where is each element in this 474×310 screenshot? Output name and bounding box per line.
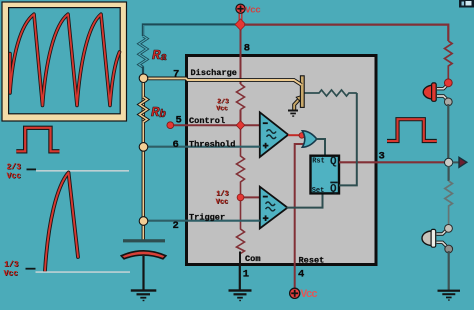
node trigger junction (ball)	[139, 217, 148, 226]
tick mark 2/3 level	[27, 169, 37, 171]
resistor Rb	[140, 97, 148, 122]
node 2/3 Vcc junction (diamond)	[236, 121, 245, 130]
wire capacitor to ground	[142, 256, 144, 290]
svg-text:Vcc: Vcc	[7, 172, 22, 181]
node threshold junction (ball)	[139, 143, 148, 152]
ground (LED2)	[438, 290, 461, 301]
capacitor C1 bottom plate (curved)	[121, 251, 166, 259]
svg-text:Discharge: Discharge	[191, 68, 237, 78]
resistor R3 (5k divider bottom)	[237, 197, 245, 253]
node LED2 anode (ball)	[445, 225, 453, 233]
svg-text:Threshold: Threshold	[189, 139, 235, 149]
arrow output pin3	[459, 157, 467, 167]
svg-text:Vcc: Vcc	[216, 199, 229, 207]
wire trigger pin2	[144, 220, 260, 222]
LED D1 (red)	[423, 83, 447, 101]
wire 1/3Vcc node to comparator 2	[241, 196, 260, 198]
ground (pin 1)	[229, 289, 252, 301]
node 1/3 Vcc junction (dot)	[237, 194, 244, 201]
LED D2 (green/off)	[422, 229, 446, 247]
svg-text:2/3: 2/3	[217, 98, 229, 105]
svg-text:7: 7	[173, 69, 179, 81]
svg-text:Rst: Rst	[312, 157, 325, 165]
svg-text:Control: Control	[189, 116, 225, 126]
square pulse waveform (left)	[16, 128, 59, 152]
ground (transistor emitter)	[288, 110, 298, 117]
resistor Ra	[139, 36, 147, 67]
resistor R-LED1	[444, 41, 452, 79]
wire LED to output node	[447, 104, 449, 159]
Vcc symbol top (pin 8)	[236, 4, 261, 21]
wire LED2 to ground	[448, 251, 450, 290]
voltage divider wire from pin 8	[240, 25, 242, 85]
wire output stub to arrow	[453, 161, 460, 163]
node Vcc junction (diamond)	[235, 19, 246, 30]
svg-text:3: 3	[379, 151, 385, 163]
svg-text:4: 4	[298, 269, 304, 281]
level line 1/3 Vcc	[36, 271, 131, 272]
flip-flop U3	[311, 156, 340, 196]
555 IC body (gray box)	[187, 56, 377, 265]
sawtooth waveform in scope	[10, 14, 120, 105]
svg-text:1: 1	[243, 269, 249, 281]
svg-text:5: 5	[176, 115, 182, 127]
wire top rail to LED resistor (maroon)	[244, 25, 448, 41]
svg-text:6: 6	[173, 139, 179, 151]
comparator U1 (threshold)	[260, 112, 288, 157]
label 2/3 Vcc (left margin)	[7, 164, 22, 182]
capacitor charge waveform (left)	[45, 173, 78, 271]
wire pin3 output from Q	[339, 161, 446, 163]
wire comparator2 output to flip-flop Set	[287, 194, 323, 208]
wire Ra to discharge node	[142, 67, 144, 76]
capacitor C1 top plate	[123, 239, 165, 242]
box pin name labels	[189, 68, 324, 266]
svg-text:Vcc: Vcc	[245, 4, 261, 15]
wire comparator1 output to OR gate	[288, 134, 303, 136]
svg-text:Vcc: Vcc	[301, 289, 318, 301]
resistor R-LED2	[445, 181, 453, 225]
svg-text:1/3: 1/3	[4, 261, 19, 270]
OR gate (reset logic)	[302, 131, 317, 147]
wire com to box bottom	[239, 252, 241, 267]
resistor R2 (5k divider middle)	[237, 125, 245, 198]
label 1/3 Vcc (inside box)	[216, 191, 229, 207]
wire threshold pin6	[144, 146, 260, 148]
wire discharge pin7	[144, 78, 302, 84]
node LED anode (red ball)	[444, 79, 452, 87]
svg-text:Q: Q	[330, 156, 337, 168]
wire Qbar to base resistor	[339, 93, 357, 185]
tick mark 1/3 level	[26, 268, 36, 270]
node discharge junction (ball)	[139, 74, 148, 83]
svg-text:Trigger: Trigger	[189, 212, 225, 222]
transistor Q1 (discharge)	[294, 76, 304, 110]
ground (capacitor)	[131, 289, 157, 301]
resistor base (discharge transistor)	[305, 90, 357, 96]
node pin3 output junction (ball)	[445, 158, 453, 166]
wire tan (discharge node to threshold node to trigger node to capacitor)	[142, 80, 145, 240]
label 2/3 Vcc (inside box)	[217, 99, 230, 113]
oscilloscope frame	[2, 2, 127, 121]
node LED cathode (gray ball)	[444, 98, 452, 106]
resistor R1 (5k divider top)	[237, 84, 245, 110]
svg-text:Reset: Reset	[299, 256, 325, 266]
svg-text:Vcc: Vcc	[4, 270, 19, 279]
node control pin5 (red dot)	[167, 122, 174, 129]
wire OR output to flip-flop Rst	[317, 139, 326, 156]
svg-text:2/3: 2/3	[7, 163, 22, 172]
svg-text:1/3: 1/3	[216, 191, 229, 199]
svg-text:Set: Set	[312, 187, 325, 195]
label 1/3 Vcc (left margin)	[4, 261, 19, 279]
Vcc symbol bottom (pin 4)	[290, 288, 318, 301]
wire output node to R-LED2	[448, 166, 450, 181]
watermark icon top right	[459, 0, 474, 8]
level line 2/3 Vcc	[36, 170, 129, 171]
svg-text:Q: Q	[330, 184, 337, 196]
wire control node to comparator	[170, 124, 260, 126]
svg-text:2: 2	[173, 220, 179, 232]
node comparator1 output (red dot)	[299, 133, 305, 139]
reset wire pin4	[295, 144, 304, 288]
svg-text:Vcc: Vcc	[216, 105, 228, 112]
node LED2 cathode (ball)	[445, 245, 453, 253]
wire pin1 to ground	[239, 266, 241, 290]
comparator U2 (trigger)	[260, 187, 288, 229]
svg-text:Com: Com	[245, 254, 260, 264]
svg-text:8: 8	[244, 43, 250, 55]
wire top rail (teal)	[143, 25, 241, 36]
square pulse waveform (right)	[387, 119, 437, 141]
